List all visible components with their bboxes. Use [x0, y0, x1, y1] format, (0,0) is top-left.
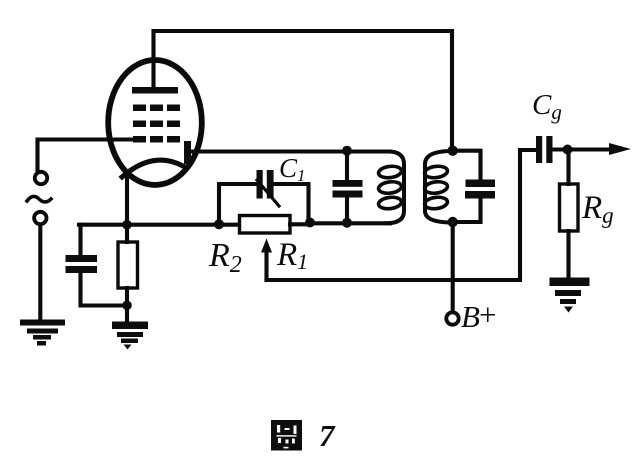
ground (input)	[20, 320, 65, 346]
coupling capacitor Cg plates	[536, 136, 553, 163]
svg-text:B: B	[461, 299, 480, 334]
svg-text:Rg: Rg	[581, 190, 614, 228]
tank capacitor left stub bottom	[345, 198, 349, 224]
tank capacitor left plates	[333, 180, 363, 198]
C1 loop wire left	[219, 184, 256, 224]
svg-text:C1: C1	[279, 153, 306, 185]
secondary coil L2 outline	[425, 151, 452, 223]
caption figure glyph	[271, 420, 302, 451]
secondary coil L2 loops	[424, 165, 448, 210]
junction tank-left bottom	[342, 218, 352, 228]
tube V1 envelope	[108, 60, 202, 185]
junction below resistor	[122, 301, 132, 311]
junction cathode rail	[122, 220, 132, 230]
junction secondary bottom	[448, 217, 458, 227]
filament arc	[122, 160, 183, 177]
svg-text:R2: R2	[208, 237, 242, 278]
output wire	[568, 147, 617, 151]
wire Rg top	[566, 150, 570, 184]
wire plate lead to top rail to secondary top	[154, 31, 453, 150]
wire Cg to junction	[553, 147, 569, 151]
plate (anode) bar	[132, 87, 178, 94]
wiper arrowhead	[261, 239, 272, 253]
grid dashes row 3	[133, 136, 180, 143]
AC source tilde	[27, 196, 51, 202]
wire resistor top	[125, 227, 129, 242]
capacitor C1 trimmer slash	[257, 180, 279, 206]
bypass capacitor C plates	[66, 255, 98, 273]
terminal B+	[446, 312, 458, 324]
input terminal bottom	[34, 212, 46, 224]
cathode side bar	[184, 141, 191, 164]
bypass capacitor branch wires	[78, 225, 82, 254]
resistor R box	[240, 216, 291, 234]
cathode lead from tube bottom	[125, 178, 129, 225]
grid dashes row 2	[133, 121, 180, 128]
capacitor C1 plates	[257, 170, 274, 199]
tank capacitor left stub top	[345, 151, 349, 180]
top rail from tube electrode to primary	[190, 149, 390, 153]
junction R1 right	[305, 218, 315, 228]
input terminal top	[35, 172, 47, 184]
svg-text:+: +	[479, 297, 496, 332]
wire Rg bottom	[566, 231, 570, 279]
grid lead wire	[38, 140, 137, 171]
wire junction to ground	[125, 305, 129, 322]
junction output node	[563, 145, 573, 155]
cathode resistor box	[118, 242, 138, 288]
svg-text:7: 7	[319, 418, 336, 453]
svg-text:Cg: Cg	[532, 89, 562, 124]
bottom rail to tank	[310, 221, 390, 225]
junction tank-left top	[342, 146, 352, 156]
wire terminal to ground	[38, 225, 42, 322]
wire secondary bottom to B+	[451, 222, 455, 312]
C1 loop wire right	[275, 184, 309, 221]
tank capacitor right plates	[465, 180, 495, 199]
junction secondary top	[448, 146, 458, 156]
resistor Rg box	[560, 184, 579, 231]
wire resistor bottom	[125, 288, 129, 306]
bypass capacitor bottom wire	[81, 273, 128, 306]
output arrowhead	[609, 143, 631, 155]
ground (Rg)	[550, 278, 590, 313]
primary coil L1 loops	[378, 165, 402, 210]
primary coil L1 outline	[386, 152, 404, 224]
junction R1 left	[214, 219, 224, 229]
ground (cathode)	[112, 322, 148, 350]
tank capacitor right loop top	[453, 151, 481, 179]
grid dashes row 1	[133, 105, 180, 112]
wire cathode rail left	[79, 223, 240, 227]
feedback wire	[267, 150, 537, 280]
wire R box right	[290, 222, 311, 226]
svg-text:R1: R1	[276, 237, 308, 274]
tank capacitor right loop bottom	[453, 199, 481, 223]
wiper arrow line	[264, 250, 268, 280]
